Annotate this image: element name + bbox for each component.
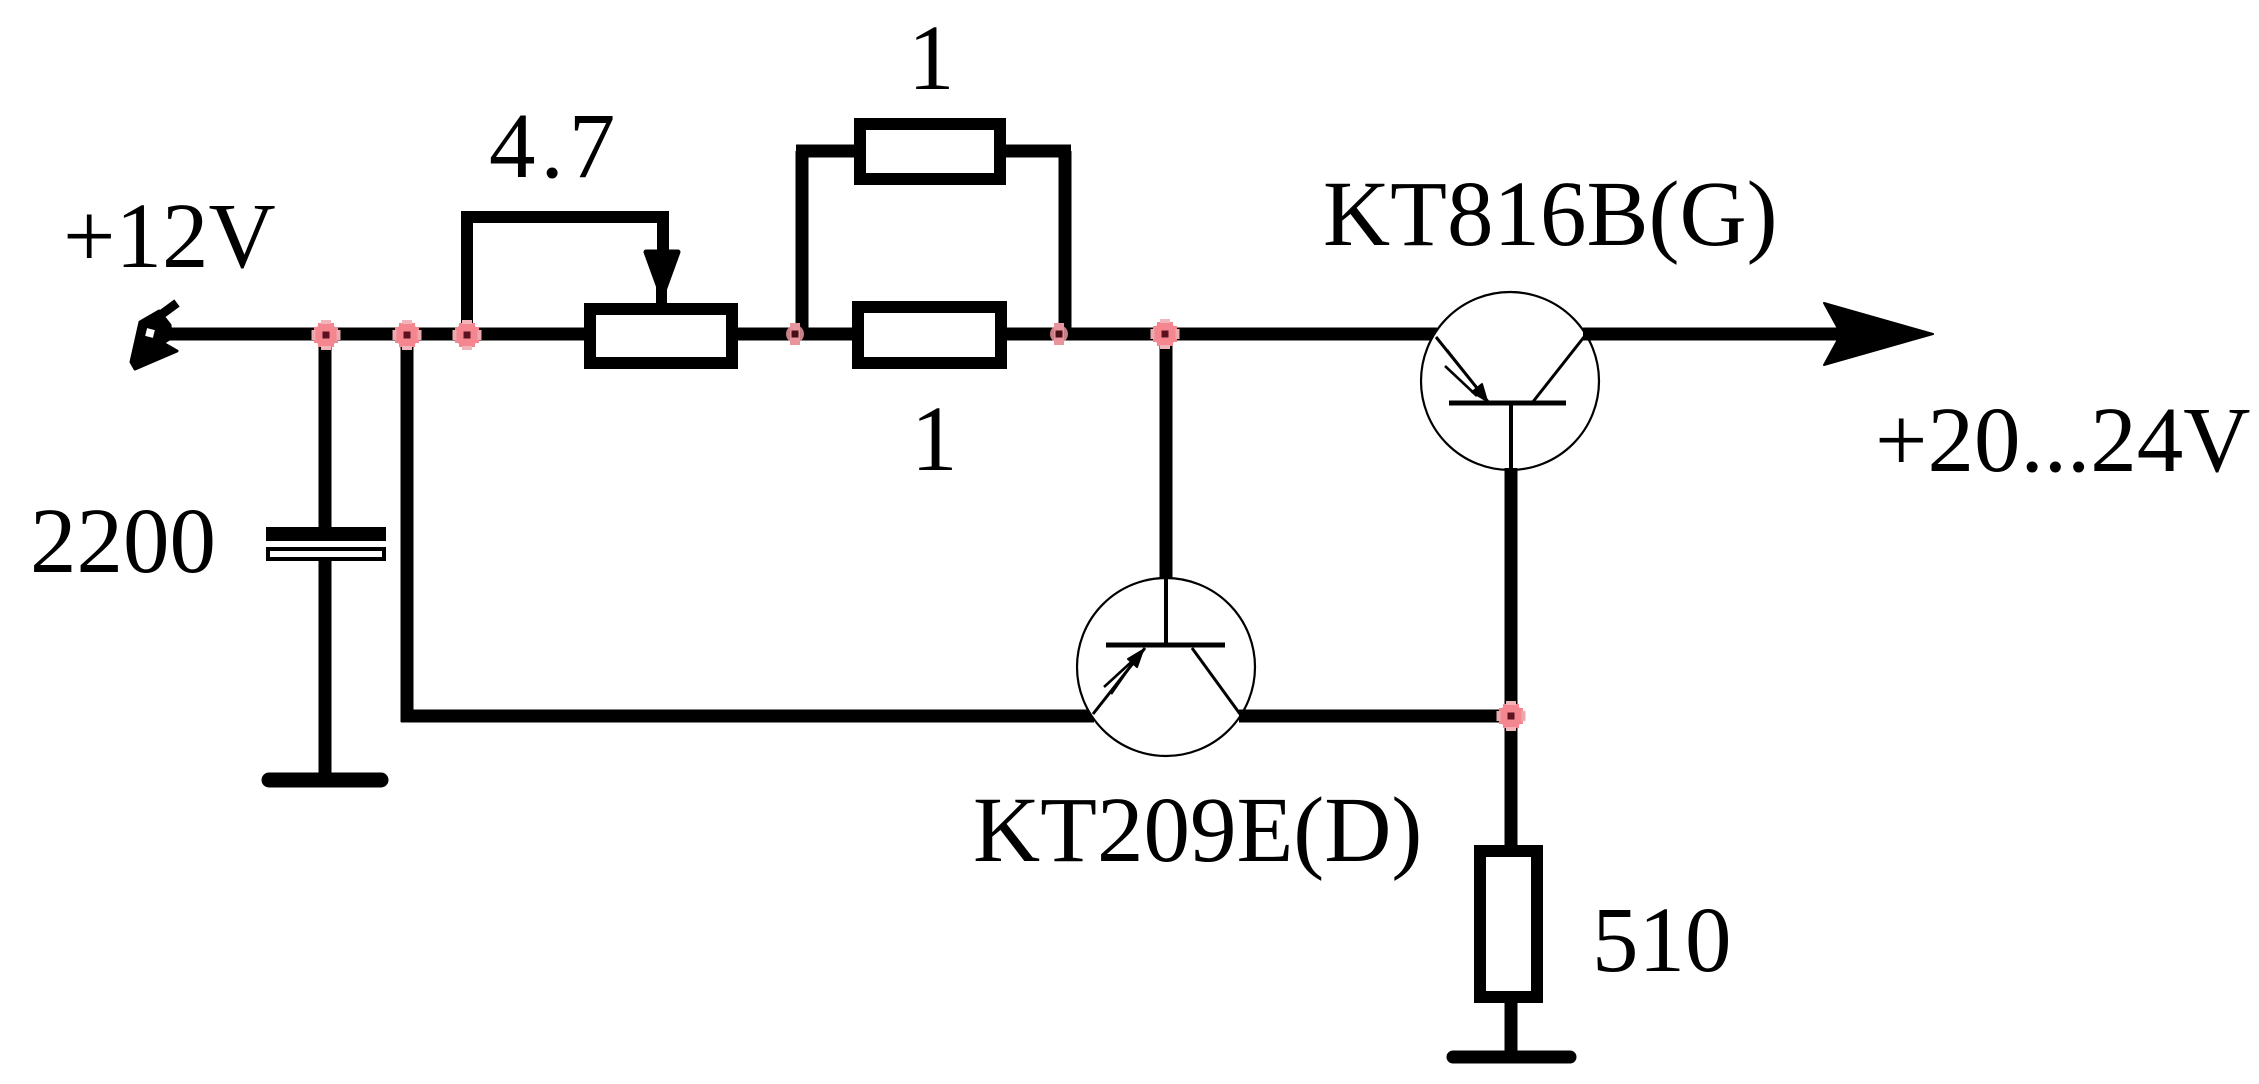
svg-text:KT816B(G): KT816B(G): [1323, 163, 1778, 266]
svg-text:2200: 2200: [30, 490, 216, 593]
svg-text:+20...24V: +20...24V: [1875, 389, 2250, 492]
wire main line segment B: [737, 328, 860, 341]
wire parallel loop left vertical: [796, 151, 809, 334]
svg-text:4.7: 4.7: [489, 95, 620, 198]
input terminal +12V arrow: [131, 303, 177, 369]
wire potentiometer bypass: down to wiper: [657, 211, 669, 252]
wire lower horizontal to KT209E: [401, 710, 1094, 723]
wire lower horizontal right of KT209E: [1239, 710, 1518, 723]
wire parallel loop right vertical: [1059, 151, 1072, 334]
node junction x325: [312, 320, 341, 350]
node junction x1057 (faint): [1050, 323, 1068, 345]
ground under 510: [1453, 1051, 1570, 1064]
ground under capacitor: [269, 773, 381, 788]
KT816B base bar: [1449, 401, 1566, 406]
svg-text:1: 1: [911, 388, 958, 491]
transistor Q2 KT209E circle: [1077, 578, 1255, 756]
capacitor 2200 bottom plate: [268, 549, 384, 559]
resistor 1 (top) body: [860, 124, 1000, 179]
KT816B emitter diagonal: [1436, 337, 1489, 403]
resistor 1 (bottom, in line) body: [858, 307, 1001, 363]
KT209E collector diagonal: [1192, 648, 1240, 714]
wire capacitor lead bottom: [319, 561, 332, 779]
wire parallel loop right stub: [1000, 145, 1071, 158]
wire parallel loop left stub: [796, 145, 862, 158]
wire KT209E base lead (from main line down): [1160, 334, 1173, 580]
wire main line segment C: [1001, 328, 1437, 341]
wire capacitor lead top: [319, 334, 332, 529]
node junction x1165: [1151, 319, 1180, 349]
wire KT816B base lead down to node: [1505, 468, 1518, 716]
svg-text:510: 510: [1592, 889, 1732, 992]
wire main line segment A: [166, 328, 591, 341]
wire potentiometer bypass: vertical up from x467: [461, 217, 473, 334]
wire 510 resistor top lead: [1505, 716, 1518, 852]
wire potentiometer bypass: top horizontal: [461, 211, 669, 223]
wire main line output segment: [1583, 328, 1905, 341]
wire to KT209E emitter: vertical from x407: [401, 334, 414, 722]
KT816B base lead inside: [1509, 403, 1513, 470]
potentiometer R 4.7 body: [590, 309, 732, 363]
KT816B collector diagonal: [1532, 337, 1584, 403]
svg-text:KT209E(D): KT209E(D): [973, 779, 1422, 882]
node junction x407: [393, 320, 422, 350]
potentiometer wiper arrow: [646, 252, 678, 296]
KT209E base lead inside: [1164, 578, 1168, 645]
node junction x467: [453, 320, 482, 350]
capacitor 2200 top plate: [266, 527, 386, 541]
KT209E emitter diagonal: [1093, 648, 1145, 714]
KT816B emitter arrow: [1445, 350, 1487, 401]
svg-text:1: 1: [908, 7, 955, 110]
KT209E base bar: [1106, 643, 1225, 648]
svg-text:+12V: +12V: [63, 185, 276, 288]
node junction x1511 y716: [1497, 701, 1526, 731]
output arrow: [1824, 303, 1933, 365]
KT209E emitter arrow: [1104, 650, 1143, 694]
node junction x795 (faint): [786, 323, 804, 345]
wire 510 resistor bottom lead: [1505, 997, 1518, 1056]
transistor Q1 KT816B circle: [1421, 292, 1599, 470]
resistor 510 body: [1480, 851, 1537, 997]
